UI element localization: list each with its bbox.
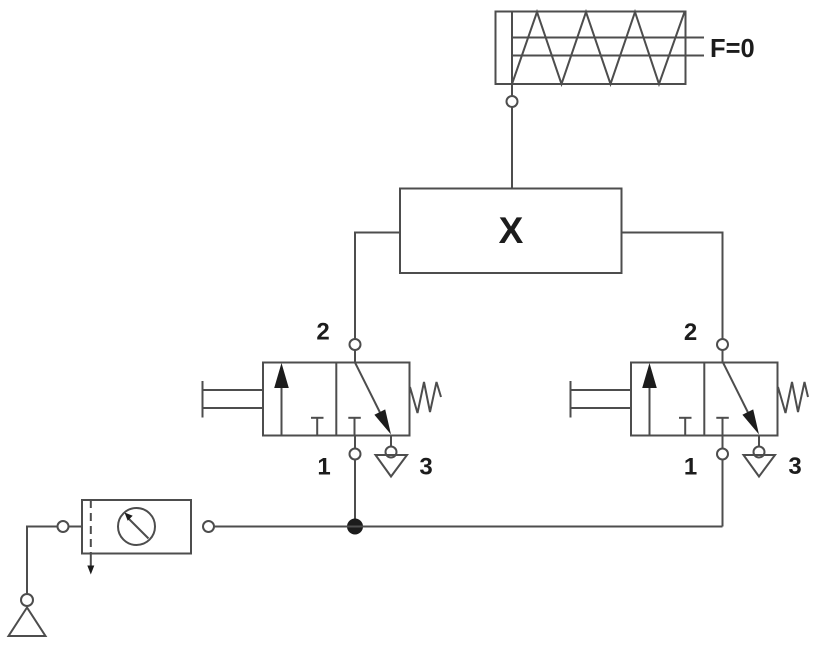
wire port circle to X box [511, 107, 513, 189]
valve 1V2 port 1 circle [717, 449, 728, 460]
valve 1V2 body (3/2-way valve, right) [631, 363, 778, 436]
valve 1V2 actuated-position flow arrow 1 to 2 [642, 363, 657, 436]
svg-text:3: 3 [788, 453, 801, 480]
label 1 (valve 1V1) [317, 454, 330, 481]
valve 1V1 actuated-position flow arrow 1 to 2 [274, 363, 289, 436]
cylinder port circle [507, 96, 518, 107]
service unit dashed separator [90, 500, 92, 554]
wire right valve port 1 down to supply line [722, 436, 724, 527]
svg-text:X: X [499, 210, 524, 251]
supply line junction dot [347, 519, 363, 535]
wire air source to service unit [27, 527, 58, 595]
svg-text:2: 2 [684, 319, 697, 346]
cylinder piston rod [512, 38, 704, 56]
label 1 (valve 1V2) [684, 454, 697, 481]
cylinder piston [511, 12, 513, 85]
service unit drain arrow [87, 554, 94, 575]
service unit right port circle [203, 521, 214, 532]
two-pressure valve X box [400, 189, 622, 274]
valve 1V2 rest-position blocked port 1 [716, 418, 729, 436]
service unit left port circle [58, 521, 69, 532]
valve 1V1 position divider [335, 363, 337, 436]
supply line service unit to right valve [214, 526, 723, 528]
cylinder return spring [512, 12, 685, 84]
label 2 (valve 1V2) [684, 319, 697, 346]
service unit 0Z1 body (filter-regulator, simplified) [82, 500, 191, 554]
valve 1V2 position divider [703, 363, 705, 436]
wire port 2 circle to right valve [722, 350, 724, 363]
valve 1V2 port 3 circle [754, 447, 765, 458]
wire left port circle to service unit [69, 526, 83, 528]
label F=0 [710, 35, 755, 63]
wire X box right to right valve port 2 [622, 233, 723, 340]
wire cylinder to port circle [511, 84, 513, 96]
label 3 (valve 1V2) [788, 453, 801, 480]
valve 1V1 plunger actuator [203, 381, 264, 418]
svg-text:1: 1 [684, 454, 697, 481]
label 3 (valve 1V1) [419, 454, 432, 481]
valve 1V1 port 3 stem [390, 436, 392, 447]
service unit gauge needle [125, 513, 149, 539]
compressed air source triangle [9, 608, 46, 637]
valve 1V2 rest-position flow path 2 to 3 [723, 363, 759, 435]
wire port 2 circle to left valve [354, 350, 356, 363]
cylinder body (single-acting cylinder) [496, 12, 686, 85]
valve 1V1 body (3/2-way valve, left) [263, 363, 410, 436]
valve 1V2 port 3 stem [758, 436, 760, 447]
valve 1V1 rest-position blocked port 1 [348, 418, 361, 436]
valve 1V1 port 3 circle [386, 447, 397, 458]
air source port circle [21, 594, 33, 606]
valve 1V2 actuated-position blocked port 3 [679, 418, 692, 436]
valve 1V1 actuated-position blocked port 3 [311, 418, 324, 436]
valve 1V2 plunger actuator [571, 381, 632, 418]
valve 1V1 exhaust triangle [376, 455, 408, 477]
valve 1V1 port 1 circle [350, 449, 361, 460]
right valve port 2 circle [717, 339, 728, 350]
svg-text:F=0: F=0 [710, 35, 755, 63]
label 2 (valve 1V1) [316, 319, 329, 346]
wire X box left to left valve port 2 [355, 233, 400, 340]
valve 1V2 exhaust triangle [744, 455, 776, 477]
svg-text:3: 3 [419, 454, 432, 481]
valve 1V1 rest-position flow path 2 to 3 [355, 363, 391, 435]
wire left valve port 1 down to junction [354, 436, 356, 527]
label X [499, 210, 524, 251]
left valve port 2 circle [350, 339, 361, 350]
valve 1V1 return spring [410, 382, 441, 413]
valve 1V2 return spring [778, 382, 808, 413]
svg-text:2: 2 [316, 319, 329, 346]
svg-text:1: 1 [317, 454, 330, 481]
service unit pressure gauge [118, 508, 155, 545]
